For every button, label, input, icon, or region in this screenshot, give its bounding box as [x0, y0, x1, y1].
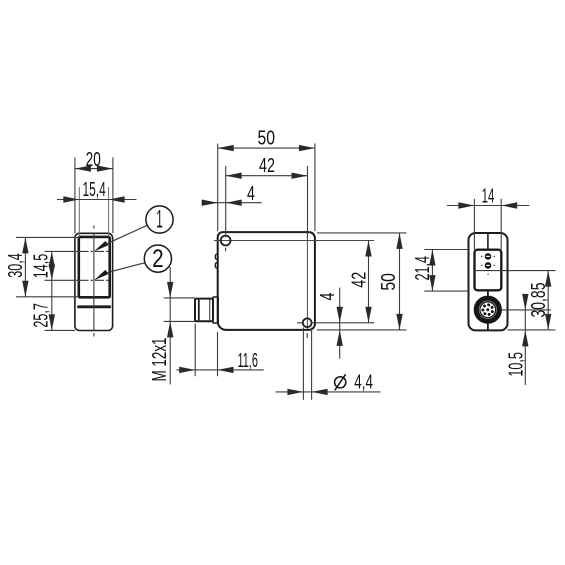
- svg-text:30,85: 30,85: [528, 283, 550, 318]
- svg-text:4,4: 4,4: [354, 372, 373, 394]
- svg-text:25,7: 25,7: [31, 303, 53, 328]
- svg-text:4: 4: [317, 293, 339, 301]
- svg-text:14,5: 14,5: [31, 254, 53, 279]
- svg-text:30,4: 30,4: [5, 253, 27, 278]
- svg-text:42: 42: [348, 272, 370, 288]
- svg-text:11,6: 11,6: [237, 350, 258, 372]
- svg-text:2: 2: [152, 245, 164, 273]
- svg-text:15,4: 15,4: [83, 179, 106, 201]
- svg-text:M 12x1: M 12x1: [149, 338, 171, 382]
- svg-text:50: 50: [258, 127, 276, 149]
- svg-text:50: 50: [378, 273, 400, 291]
- svg-text:10,5: 10,5: [506, 352, 528, 377]
- svg-text:42: 42: [259, 155, 275, 177]
- svg-text:20: 20: [86, 149, 101, 171]
- svg-text:4: 4: [247, 183, 255, 205]
- svg-text:14: 14: [482, 186, 495, 208]
- svg-text:1: 1: [156, 206, 163, 234]
- svg-text:21,4: 21,4: [412, 256, 434, 281]
